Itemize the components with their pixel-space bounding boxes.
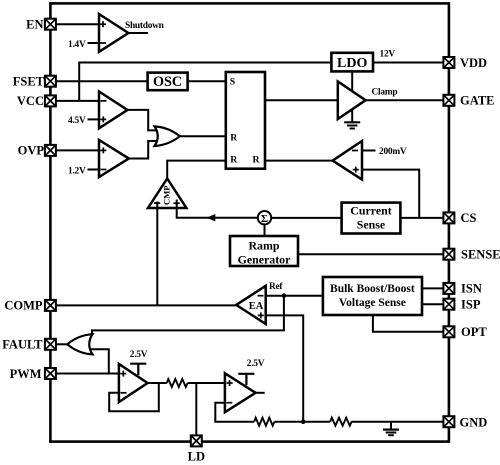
or-gate OR1: [155, 126, 180, 146]
svg-text:Shutdown: Shutdown: [125, 21, 165, 31]
svg-text:OPT: OPT: [461, 325, 487, 339]
svg-text:200mV: 200mV: [379, 147, 407, 157]
wire LD riser: [195, 383, 197, 435]
ground at divider: [383, 422, 399, 436]
svg-text:Bulk Boost/Boost: Bulk Boost/Boost: [330, 283, 415, 295]
svg-text:12V: 12V: [380, 49, 396, 59]
resistor R3: [330, 418, 351, 426]
svg-text:CMP: CMP: [162, 185, 172, 205]
wire U2 output to OR1: [128, 110, 158, 130]
wire COMP to EA output: [56, 304, 236, 306]
wire FSET to OSC: [56, 80, 148, 82]
wire summer to CMP + input with arrow: [177, 200, 258, 221]
pin GND: [443, 415, 487, 429]
wire R3 to GND pin: [351, 421, 443, 423]
error amplifier EA: [236, 286, 266, 324]
svg-text:FSET: FSET: [13, 74, 45, 88]
wire bulk boost block to ISP: [422, 303, 443, 305]
svg-text:Ref: Ref: [269, 282, 283, 292]
wire R1 to U8 + input: [188, 382, 225, 384]
comparator CMP (PWM comparator): [148, 179, 186, 210]
current sense block: [342, 203, 401, 234]
wire summer to ramp generator: [264, 224, 266, 236]
svg-text:Clamp: Clamp: [372, 87, 398, 97]
comparator U2 (UVLO 4.5V): [99, 92, 128, 129]
4.5V reference input: [68, 116, 99, 126]
wire bulk boost block to OPT: [373, 315, 444, 332]
pin ISP: [443, 298, 480, 312]
svg-text:ISN: ISN: [461, 282, 482, 296]
wire U8 output stub: [256, 392, 265, 394]
wire clamp to GATE: [366, 99, 444, 101]
wire ramp generator to SENSE pin: [298, 253, 443, 255]
wire latch output to clamp buffer: [265, 99, 338, 101]
wire U8 feedback to divider: [215, 403, 254, 422]
wire current sense to CS pin: [400, 217, 443, 219]
svg-text:LD: LD: [188, 450, 205, 464]
svg-text:EN: EN: [26, 18, 43, 32]
svg-text:GATE: GATE: [460, 94, 495, 108]
wire U7 feedback loop: [109, 383, 159, 411]
U1 output wire: [128, 32, 148, 34]
resistor R1: [167, 379, 188, 387]
wire summer to current sense: [271, 217, 341, 219]
svg-text:Σ: Σ: [261, 213, 268, 225]
wire EA - input to bulk boost sense block: [266, 295, 323, 297]
wire OR2 lower input to PWM net: [90, 349, 109, 373]
wire U3 output to OR1: [129, 141, 157, 159]
svg-text:Sense: Sense: [357, 218, 385, 232]
wire LDO to VDD, label 12V: [373, 49, 443, 62]
bulk boost / boost voltage sense block: [323, 277, 422, 315]
wire EN to U1 + input: [56, 23, 99, 25]
wire R2 to junction: [274, 421, 330, 423]
svg-text:S: S: [230, 77, 236, 88]
svg-text:R: R: [230, 132, 238, 143]
pin LD: [188, 435, 205, 463]
pin OPT: [443, 325, 487, 339]
svg-text:VCC: VCC: [17, 94, 44, 108]
wire EA + input riser to feedback divider: [266, 315, 304, 421]
200mV reference input: [362, 147, 407, 157]
wire VCC riser to LDO: [79, 63, 331, 101]
wire OVP to U3: [56, 149, 99, 151]
svg-text:LDO: LDO: [337, 56, 367, 71]
pin GATE: [443, 94, 494, 108]
wire U6 + input riser to CS net: [362, 170, 419, 218]
regulator LDO: [331, 53, 373, 72]
svg-text:CS: CS: [461, 211, 477, 225]
wire OR1 to latch R input: [180, 135, 226, 137]
resistor R2: [254, 418, 274, 426]
pin FSET: [13, 74, 56, 88]
svg-text:1.2V: 1.2V: [68, 166, 86, 176]
svg-text:COMP: COMP: [4, 299, 43, 313]
svg-text:SENSE: SENSE: [461, 248, 500, 262]
comparator U1 (shutdown): [99, 14, 128, 52]
IC block boundary: [50, 3, 449, 441]
wire Ref node to fault OR gate: [92, 296, 284, 336]
wire FAULT pin to OR2 output: [56, 343, 67, 345]
comparator U3 (OVP 1.2V): [99, 140, 129, 177]
svg-text:VDD: VDD: [460, 56, 487, 70]
2.5V supply bar on U7: [130, 350, 148, 375]
svg-text:Voltage Sense: Voltage Sense: [339, 297, 406, 309]
pin VCC: [17, 94, 56, 108]
junction divider node: [301, 419, 306, 424]
wire VCC to U2: [56, 100, 99, 102]
wire PWM to U7: [56, 373, 119, 375]
svg-text:R: R: [253, 154, 261, 165]
pin PWM: [10, 367, 56, 381]
svg-text:1.4V: 1.4V: [68, 40, 86, 50]
junction Ref node: [282, 293, 287, 298]
or-gate OR2 (fault): [67, 334, 92, 354]
pin ISN: [443, 282, 481, 296]
svg-text:4.5V: 4.5V: [68, 116, 86, 126]
wire U7 output: [148, 382, 167, 384]
svg-text:R: R: [230, 154, 238, 165]
oscillator OSC: [148, 73, 188, 91]
comparator U6 (200mV): [333, 141, 362, 180]
pin CS: [443, 211, 476, 225]
wire latch R (bottom-right) to U6 output: [265, 160, 333, 162]
wire bulk boost block to ISN: [422, 287, 443, 289]
comparator U8: [225, 373, 256, 412]
svg-text:2.5V: 2.5V: [130, 350, 148, 360]
pin FAULT: [2, 338, 56, 352]
wire OSC to latch S input: [188, 80, 226, 82]
pin COMP: [4, 299, 56, 313]
summer node (sigma): [258, 211, 271, 225]
pin OVP: [18, 144, 56, 158]
ramp generator block: [230, 236, 298, 267]
comparator U7 (PWM input buffer): [119, 364, 148, 402]
1.4V reference input: [68, 40, 99, 50]
buffer U5 (Clamp): [338, 71, 366, 122]
svg-text:ISP: ISP: [461, 298, 481, 312]
wire CMP - input riser to COMP net: [156, 202, 158, 306]
1.2V reference input: [68, 166, 99, 176]
2.5V supply bar on U8: [238, 359, 264, 385]
svg-text:Ramp: Ramp: [248, 238, 279, 252]
svg-text:PWM: PWM: [10, 367, 42, 381]
svg-text:OSC: OSC: [153, 74, 182, 90]
latch U4 (SR flip-flop): [226, 72, 265, 169]
svg-text:FAULT: FAULT: [2, 338, 43, 352]
wire latch R (bottom-left) to CMP: [167, 161, 226, 179]
svg-text:GND: GND: [460, 415, 488, 429]
svg-text:Generator: Generator: [238, 253, 292, 267]
svg-text:2.5V: 2.5V: [247, 359, 265, 369]
svg-text:EA: EA: [249, 301, 264, 312]
pin EN: [26, 18, 56, 32]
pin SENSE: [443, 248, 500, 262]
svg-text:OVP: OVP: [18, 144, 45, 158]
ground under clamp: [344, 122, 360, 128]
svg-text:Current: Current: [350, 203, 391, 217]
pin VDD: [443, 56, 487, 70]
